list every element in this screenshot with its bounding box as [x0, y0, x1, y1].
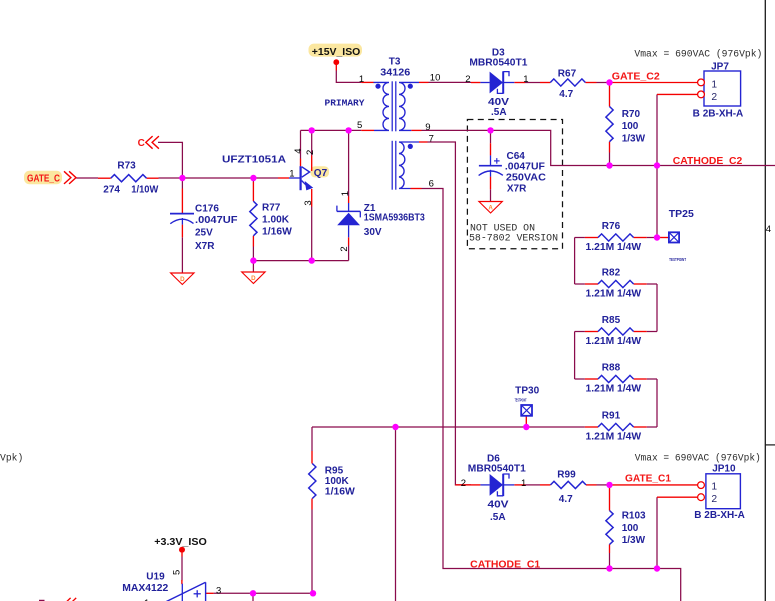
svg-text:.0047UF: .0047UF	[505, 161, 545, 172]
svg-text:X7R: X7R	[507, 183, 527, 194]
svg-text:Vpk): Vpk)	[0, 453, 23, 464]
svg-text:D: D	[251, 275, 256, 282]
svg-text:1: 1	[711, 482, 717, 493]
svg-text:.5A: .5A	[491, 107, 507, 118]
svg-text:CATHODE_C2: CATHODE_C2	[673, 156, 743, 167]
svg-text:.5A: .5A	[490, 512, 506, 523]
svg-text:D: D	[180, 276, 185, 283]
svg-text:100: 100	[622, 121, 639, 132]
svg-text:GATE_C: GATE_C	[27, 173, 60, 184]
svg-text:GATE_C2: GATE_C2	[612, 72, 660, 83]
svg-text:Vmax = 690VAC (976Vpk): Vmax = 690VAC (976Vpk)	[635, 453, 761, 464]
svg-text:T3: T3	[389, 56, 401, 67]
svg-text:1/16W: 1/16W	[262, 227, 292, 238]
svg-text:U19: U19	[146, 572, 165, 583]
svg-text:R77: R77	[262, 202, 281, 213]
svg-text:1SMA5936BT3: 1SMA5936BT3	[364, 213, 425, 224]
svg-text:1.00K: 1.00K	[262, 215, 290, 226]
svg-text:1: 1	[523, 74, 528, 85]
svg-text:R85: R85	[602, 315, 621, 326]
svg-text:1: 1	[521, 478, 526, 489]
svg-text:UFZT1051A: UFZT1051A	[222, 155, 286, 166]
svg-text:1/3W: 1/3W	[622, 535, 646, 546]
svg-text:100K: 100K	[325, 476, 350, 487]
svg-text:JP10: JP10	[712, 464, 736, 475]
svg-text:+15V_ISO: +15V_ISO	[312, 47, 361, 58]
svg-text:TP30: TP30	[515, 385, 539, 396]
svg-text:1: 1	[711, 80, 717, 91]
svg-text:1.21M 1/4W: 1.21M 1/4W	[586, 242, 642, 253]
svg-text:274: 274	[103, 184, 120, 195]
svg-text:4: 4	[293, 149, 304, 154]
svg-text:B 2B-XH-A: B 2B-XH-A	[694, 510, 745, 521]
svg-text:1.21M 1/4W: 1.21M 1/4W	[586, 289, 642, 300]
svg-text:2: 2	[711, 92, 717, 103]
svg-text:1.21M 1/4W: 1.21M 1/4W	[586, 432, 642, 443]
svg-text:TESTPOINT: TESTPOINT	[515, 398, 527, 403]
svg-text:R76: R76	[602, 221, 621, 232]
svg-text:58-7802 VERSION: 58-7802 VERSION	[469, 233, 558, 244]
svg-text:4: 4	[766, 224, 771, 235]
svg-text:X7R: X7R	[195, 241, 215, 252]
svg-text:1/10W: 1/10W	[131, 184, 159, 195]
svg-text:3: 3	[303, 200, 314, 205]
svg-text:R82: R82	[602, 267, 621, 278]
svg-text:GATE_C1: GATE_C1	[625, 474, 671, 485]
svg-text:2: 2	[339, 246, 350, 251]
svg-text:R95: R95	[325, 465, 344, 476]
svg-text:R67: R67	[558, 68, 577, 79]
svg-text:C: C	[138, 138, 145, 149]
svg-text:R103: R103	[622, 511, 646, 522]
svg-text:MBR0540T1: MBR0540T1	[468, 464, 526, 475]
svg-text:R91: R91	[602, 410, 621, 421]
svg-text:1: 1	[289, 169, 294, 180]
svg-text:1: 1	[340, 191, 351, 196]
svg-text:R70: R70	[622, 109, 641, 120]
svg-text:D6: D6	[487, 453, 500, 464]
svg-text:5: 5	[172, 570, 183, 575]
svg-text:CATHODE_C1: CATHODE_C1	[470, 560, 540, 571]
svg-text:Q7: Q7	[314, 168, 328, 179]
svg-text:+3.3V_ISO: +3.3V_ISO	[154, 537, 207, 548]
svg-text:2: 2	[461, 478, 466, 489]
svg-text:R73: R73	[117, 160, 136, 171]
svg-text:R88: R88	[602, 362, 621, 373]
svg-text:MAX4122: MAX4122	[122, 583, 168, 594]
svg-text:1: 1	[359, 74, 364, 85]
svg-text:3: 3	[216, 585, 221, 596]
svg-text:B 2B-XH-A: B 2B-XH-A	[693, 109, 744, 120]
svg-text:30V: 30V	[364, 227, 382, 238]
svg-text:7: 7	[429, 133, 434, 144]
svg-text:C64: C64	[507, 151, 526, 162]
svg-text:PRIMARY: PRIMARY	[325, 97, 365, 108]
svg-text:1/3W: 1/3W	[622, 133, 646, 144]
svg-text:5: 5	[357, 120, 362, 131]
svg-text:A: A	[488, 205, 493, 212]
svg-text:2: 2	[711, 494, 717, 505]
svg-text:6: 6	[429, 178, 434, 189]
svg-text:TP25: TP25	[669, 209, 694, 220]
svg-text:34126: 34126	[380, 68, 410, 79]
svg-text:1.21M 1/4W: 1.21M 1/4W	[586, 384, 642, 395]
svg-text:9: 9	[425, 122, 430, 133]
svg-text:4.7: 4.7	[559, 494, 573, 505]
svg-text:25V: 25V	[195, 228, 213, 239]
svg-text:.0047UF: .0047UF	[195, 215, 238, 226]
svg-text:2: 2	[305, 150, 316, 155]
svg-text:2: 2	[465, 74, 470, 85]
svg-text:JP7: JP7	[711, 62, 729, 73]
svg-text:C176: C176	[195, 203, 219, 214]
svg-text:4.7: 4.7	[559, 89, 573, 100]
svg-text:100: 100	[622, 523, 639, 534]
svg-text:250VAC: 250VAC	[506, 173, 546, 184]
svg-text:TESTPOINT: TESTPOINT	[669, 257, 686, 262]
svg-text:1/16W: 1/16W	[325, 487, 356, 498]
svg-text:Vmax = 690VAC (976Vpk): Vmax = 690VAC (976Vpk)	[634, 49, 762, 60]
svg-text:10: 10	[430, 73, 441, 84]
svg-text:MBR0540T1: MBR0540T1	[469, 58, 527, 69]
svg-text:R99: R99	[557, 469, 576, 480]
svg-text:1.21M 1/4W: 1.21M 1/4W	[586, 336, 642, 347]
svg-text:40V: 40V	[488, 500, 509, 511]
